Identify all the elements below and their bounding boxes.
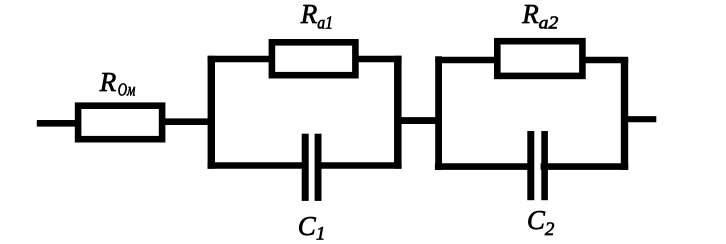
svg-text:Ra1: Ra1 <box>300 0 333 33</box>
wire R_Om to block1 <box>162 118 212 125</box>
wire block2 right bar <box>621 58 628 170</box>
wire block2 bottom rail right segment <box>541 163 629 170</box>
wire block1 top rail <box>208 56 402 62</box>
resistor Ra2 <box>497 41 582 76</box>
resistor R_Om <box>78 106 162 140</box>
wire block2 left bar <box>435 56 442 170</box>
wire left lead <box>37 120 80 127</box>
wire block1 left bar <box>208 56 215 169</box>
wire block2 top rail <box>435 57 628 63</box>
wire block1 bottom rail right segment <box>321 162 402 169</box>
capacitor C2 <box>527 131 548 200</box>
wire block2 bottom rail left segment <box>435 163 528 170</box>
wire node between block1 and block2 <box>395 117 442 124</box>
resistor Ra1 <box>272 42 356 75</box>
wire block1 right bar <box>394 56 402 169</box>
svg-text:RОм: RОм <box>99 67 136 99</box>
wire right lead <box>623 116 656 122</box>
wire block1 bottom rail left segment <box>208 162 303 169</box>
svg-text:C1: C1 <box>298 211 326 244</box>
svg-text:Ra2: Ra2 <box>521 0 558 33</box>
capacitor C1 <box>302 134 322 201</box>
svg-text:C2: C2 <box>527 205 555 240</box>
